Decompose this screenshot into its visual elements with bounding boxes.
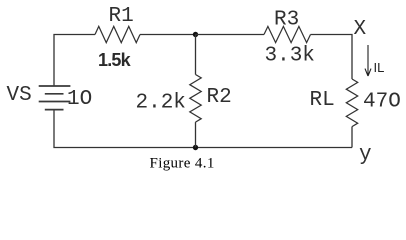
wire node A to R3 <box>196 34 265 36</box>
caption Figure 4.1 <box>150 155 215 171</box>
wire R2 to bottom wire <box>195 122 197 147</box>
junction node A (top of R2) <box>193 32 198 37</box>
svg-text:Figure 4.1: Figure 4.1 <box>150 155 215 171</box>
value label 2.2k <box>136 92 186 115</box>
label R2 <box>207 86 232 109</box>
value label 470 <box>363 90 401 113</box>
value label 10 <box>67 88 92 111</box>
svg-text:R2: R2 <box>207 86 232 109</box>
svg-text:R3: R3 <box>274 9 299 32</box>
value label 1.5k <box>98 50 132 70</box>
svg-text:1O: 1O <box>67 88 92 111</box>
junction node B (bottom of R2) <box>193 145 198 150</box>
svg-text:2.2k: 2.2k <box>136 92 186 115</box>
wire from VS positive terminal up and right to R1 <box>54 35 95 87</box>
label IL <box>374 60 385 75</box>
svg-text:R1: R1 <box>109 5 134 28</box>
resistor R2 (vertical) <box>190 75 201 123</box>
svg-text:47O: 47O <box>363 90 401 113</box>
label VS <box>7 84 32 107</box>
value label 3.3k <box>265 44 315 67</box>
svg-text:IL: IL <box>374 60 385 75</box>
bottom wire from Y to VS negative terminal <box>54 110 352 148</box>
node X label <box>354 18 367 41</box>
label R1 <box>109 5 134 28</box>
svg-text:VS: VS <box>7 84 32 107</box>
wire R3 to node X and down to RL <box>311 35 353 80</box>
resistor R3 <box>264 26 311 42</box>
svg-text:y: y <box>359 144 372 167</box>
wire RL to node Y <box>351 127 353 148</box>
label R3 <box>274 9 299 32</box>
node Y label <box>359 144 372 167</box>
svg-text:X: X <box>354 18 367 41</box>
label RL <box>310 89 335 112</box>
wire node A down to R2 <box>195 35 197 75</box>
wire R1 to node A <box>140 34 196 36</box>
svg-text:3.3k: 3.3k <box>265 44 315 67</box>
svg-text:RL: RL <box>310 89 335 112</box>
current arrow IL <box>365 45 371 76</box>
resistor R1 <box>95 26 140 42</box>
svg-text:1.5k: 1.5k <box>98 50 132 70</box>
voltage source VS (battery) <box>39 86 71 110</box>
resistor RL (vertical) <box>346 79 357 127</box>
